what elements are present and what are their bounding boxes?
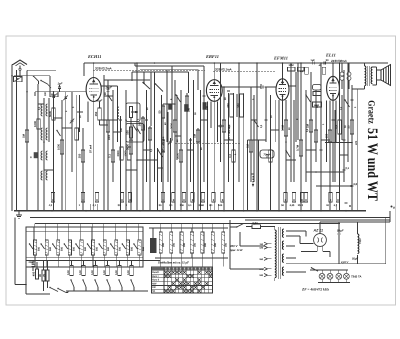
svg-text:2000: 2000 [108,134,111,140]
switch S8 [344,99,345,100]
svg-text:Kurz I: Kurz I [152,275,159,278]
osc coil L23 [107,260,109,265]
resistor R5 [75,128,79,140]
wire jog8 [104,79,150,81]
junction dots on bus [51,210,53,212]
filter coil L32 [181,228,183,232]
wire jog7 [316,185,352,187]
switch S4 [157,149,158,150]
band switch table [152,267,213,293]
switch S6 [253,119,254,120]
resistor R8c [127,147,131,160]
svg-text:500: 500 [96,246,99,251]
resistor R14 [161,140,165,152]
coil L2c [41,151,43,154]
svg-text:EFM11: EFM11 [273,56,288,61]
switch S10 [142,82,143,83]
speaker return wire [357,89,359,95]
resistor R30 [338,120,342,134]
osc switch S24 [118,279,119,280]
svg-text:150: 150 [325,133,328,138]
svg-text:300: 300 [227,103,230,108]
antenna coil L1 [14,77,23,82]
osc switch S22 [94,279,95,280]
svg-text:20µF: 20µF [28,261,35,264]
box 5000 el [313,102,322,107]
svg-text:1000: 1000 [124,150,127,156]
tube EL11 [327,76,340,100]
band coil L11 [45,227,47,240]
resistor 1000 osc [37,119,41,129]
node a [391,206,393,208]
osc coil L20 [71,260,73,265]
svg-text:AZ 11: AZ 11 [313,229,324,233]
svg-text:0,1: 0,1 [108,154,111,158]
wire bus verticals left [37,84,39,211]
svg-text:500: 500 [142,246,145,251]
coil L5 [118,107,120,110]
resistor R25 [298,67,305,71]
tube ECH11 [86,78,101,102]
row2 bottom wire [66,290,148,292]
resistor R26 [299,140,303,156]
electrolytic 50uF pair a [340,72,344,76]
svg-text:7345 TA: 7345 TA [351,275,361,279]
fuse F1 0,8A [252,225,261,229]
resistor 350a [81,150,85,162]
svg-text:300: 300 [193,242,196,247]
resistor R7 [106,120,110,132]
mains switch S30 [49,287,50,288]
capacitor C13 [261,86,263,89]
coil L2d [41,171,43,174]
capacitor C10 [189,138,192,140]
box grid stopper [313,92,321,96]
svg-text:Kurz II: Kurz II [152,279,159,282]
svg-text:70mA: 70mA [263,153,270,157]
svg-text:ZF = 468/472 kHz: ZF = 468/472 kHz [301,288,330,292]
wire riser EFM11 anode [282,63,284,79]
resistor R22 [269,150,273,162]
primary taps [264,242,268,245]
capacitor C11 [203,94,206,96]
switch S1b [40,80,41,81]
svg-text:3000: 3000 [117,150,120,156]
wire coupling EBF-EFM [222,86,261,88]
band coil L14 [79,227,81,240]
band coil L15 [91,227,93,240]
switch S32 [311,267,312,268]
svg-text:Spar. 12 W: Spar. 12 W [230,249,243,252]
svg-text:400: 400 [32,271,35,276]
band coil L10 [33,227,35,240]
heater wire 6,3V [300,263,355,265]
wire jog3 [137,159,158,161]
resistor dark box [34,152,38,158]
bank2 top wire [149,227,228,229]
table feed wires [160,258,162,267]
power transformer core [277,227,279,279]
band switch S17 [110,243,111,244]
extra verticals [143,72,145,83]
svg-text:500: 500 [72,246,75,251]
junction dots [11,75,13,77]
output transformer T2 [365,66,366,86]
resistor R19 [222,120,226,132]
resistor R40 [42,270,45,281]
switch S11 [155,83,156,84]
svg-text:50µF: 50µF [337,229,344,233]
capacitor C15 [320,148,323,150]
svg-text:25: 25 [43,274,46,277]
resistor R31 [350,120,354,134]
svg-text:a: a [393,206,395,210]
osc switch S23 [106,279,107,280]
svg-text:0,1: 0,1 [346,167,350,170]
svg-text:300: 300 [162,242,165,247]
svg-text:100: 100 [206,105,209,110]
band switch S19 [133,243,134,244]
svg-text:0,8A: 0,8A [253,222,259,225]
svg-text:10µF: 10µF [106,87,113,90]
mains tap return wires [229,227,231,269]
svg-text:51 W und WT: 51 W und WT [364,128,380,201]
switch S3 [132,124,133,125]
svg-text:500: 500 [49,246,52,251]
svg-text:350: 350 [78,153,81,158]
secondary tap wires [286,230,306,232]
svg-text:1000: 1000 [57,144,60,150]
svg-text:300: 300 [183,242,186,247]
tube EFM11 [276,79,289,100]
wire jog6 [306,171,344,173]
svg-text:97 mA: 97 mA [89,145,93,153]
speaker LS [377,70,382,80]
filter coil L31 [170,228,172,232]
band coil L17 [114,227,116,240]
row above bus: components [51,193,54,203]
heater line right [355,263,386,265]
wire bus verticals right [200,90,202,211]
bus 3 [35,223,340,225]
svg-text:MW: MW [152,282,157,285]
svg-text:0,1M: 0,1M [281,124,284,131]
band switch S16 [98,243,99,244]
capacitor 1uF top [312,62,314,65]
svg-text:Rundf.: Rundf. [152,271,159,274]
svg-text:100: 100 [126,130,129,135]
svg-text:350: 350 [95,111,98,116]
resistor 1000 [60,140,64,154]
filter choke 7310 [358,234,359,254]
svg-text:0,4: 0,4 [335,125,338,129]
svg-text:300: 300 [225,242,228,247]
wire jog4 [163,103,175,105]
svg-text:40µF: 40µF [96,100,103,103]
svg-text:500: 500 [38,246,41,251]
electrolytic 50uF pair b [347,72,351,76]
capacitor C18 [351,98,354,100]
resistor R28 [314,130,318,142]
resistor 5000 [52,108,56,120]
band switch S13 [64,243,65,244]
filter coil L33 [191,228,193,232]
svg-text:50µF: 50µF [352,258,358,261]
capacitor C7 [119,118,122,120]
resistor R18 [196,130,200,142]
osc switch S25 [130,279,131,280]
page frame [6,36,396,305]
svg-text:470: 470 [355,140,358,145]
wire jogs forest [38,103,44,105]
top supply wire [84,62,388,64]
svg-text:500: 500 [119,246,122,251]
band switch S15 [87,243,88,244]
wire top loop [135,65,204,67]
resistor R27 [309,120,313,132]
svg-text:500: 500 [61,246,64,251]
resistor R11 [141,118,145,130]
svg-text:6,8: 6,8 [354,183,358,186]
trimmer C9 [169,140,172,142]
resistor R15 [173,120,177,132]
resistor R21 [249,140,253,152]
svg-text:50: 50 [158,110,161,113]
svg-text:500: 500 [107,246,110,251]
ground G1 [18,211,20,215]
switch S5 [175,94,176,95]
wire input top [14,75,50,77]
bank1 feed stubs [33,224,35,232]
resistor R8 [111,150,115,162]
filter coil L36 [222,228,224,232]
tube EBF11 [206,80,222,102]
osc coil L24 [119,260,121,265]
svg-text:203V/3.2mA: 203V/3.2mA [94,67,112,71]
svg-text:300: 300 [204,242,207,247]
bandfilter can 2 [126,124,144,143]
power left vertical [229,220,231,227]
resistor R33 [322,67,326,74]
IF transformer T1 [230,94,234,117]
switch S2 [107,94,108,95]
resistor R23 [284,120,288,136]
resistor 350b [98,108,102,120]
power transformer primary [275,230,276,278]
coil L2b [41,128,43,131]
svg-text:0,02: 0,02 [67,270,70,275]
bandfilter can 1 [126,103,140,122]
svg-text:EL11: EL11 [325,53,336,58]
capacitor C16 [332,118,335,120]
switch S1a [33,76,34,77]
svg-text:30: 30 [39,274,42,277]
resistor R12 [148,128,152,140]
svg-text:1pF: 1pF [58,82,63,86]
capacitor C8 [145,118,148,120]
capacitor C12 [227,89,230,91]
svg-text:0,02: 0,02 [103,270,106,275]
chassis bus 2 [30,217,390,219]
capacitor 6,8 [351,184,354,186]
band switch S10 [29,243,30,244]
band switch S14 [75,243,76,244]
mains wire [245,219,390,221]
power transformer secondary [282,229,283,237]
rounded box 70mA [260,150,274,158]
svg-text:ECH11: ECH11 [87,54,101,59]
wire riser EBF11 anode [213,63,215,80]
switch S2b [56,130,57,131]
osc coil L21 [83,260,85,265]
switch S7 [305,94,306,95]
resistor 1M [25,130,29,142]
coil bank box [26,227,143,267]
capacitor 50 top [323,62,325,65]
svg-text:500: 500 [130,246,133,251]
resistor R17 [185,96,189,110]
svg-text:5000: 5000 [49,111,52,117]
resistor R24 10M [288,67,296,71]
capacitor 0,1uF [343,168,346,170]
resistor R32 [305,67,309,74]
svg-text:0,3: 0,3 [229,154,232,158]
resistor R20 [232,150,236,162]
trimmer C4 [64,96,67,98]
band coil L19 [137,227,139,240]
svg-text:TA: TA [152,290,155,293]
wire to grid [35,91,86,93]
svg-text:4,81 V: 4,81 V [341,261,349,264]
wire speaker down [385,83,387,86]
filter coil L30 [160,228,162,232]
wire jog1 [100,124,109,126]
svg-text:0,02: 0,02 [91,270,94,275]
svg-text:0,7M: 0,7M [296,144,299,151]
wire B+ top [320,221,390,223]
svg-text:7310: 7310 [359,238,362,244]
svg-text:Drehkolben mit ca. 15 pF: Drehkolben mit ca. 15 pF [157,261,189,265]
svg-text:1000: 1000 [34,121,37,127]
filter coil L34 [201,228,203,232]
resistor R41 [46,270,49,281]
band coil L18 [126,227,128,240]
wire riser EL11 anode [332,63,334,76]
resistor R10 [129,140,133,154]
row2 top wire [26,259,160,261]
heater pins [89,204,91,211]
resistor 400 [35,269,38,279]
svg-text:0,02: 0,02 [127,270,130,275]
svg-text:300: 300 [214,242,217,247]
wire mid right horizontal [325,142,352,144]
variable cap C20 [252,172,255,174]
svg-text:0,05: 0,05 [290,204,295,207]
svg-text:50: 50 [347,125,350,128]
bank2 bottom wire [155,257,228,259]
resistor R8b [120,147,124,160]
svg-text:5000: 5000 [199,204,205,207]
dashed ZF line [175,142,240,144]
wire left drop [14,218,16,285]
band coil L13 [68,227,70,240]
svg-text:Graetz: Graetz [366,100,376,124]
dial lamps [310,269,348,271]
resistor R29 [328,130,332,142]
lamp bottom wire [318,282,350,284]
svg-text:0,02: 0,02 [79,270,82,275]
band switch S18 [122,243,123,244]
svg-text:300: 300 [138,121,141,126]
svg-text:0,02: 0,02 [115,270,118,275]
svg-text:EBF11: EBF11 [205,54,219,59]
band coil L12 [56,227,58,240]
osc switch S21 [82,279,83,280]
capacitor C17 [343,138,346,140]
svg-text:1µF: 1µF [311,59,316,62]
chassis bus 1 [14,210,366,212]
wire jog5 [248,139,267,141]
wire riser ECH11 anode [93,63,95,78]
rounded box anode [313,85,322,91]
band switch S12 [52,243,53,244]
wire jog2 [100,119,118,121]
resistor R16 [179,150,183,162]
svg-text:500: 500 [84,246,87,251]
trimmer C5 [71,119,74,121]
svg-text:220 V: 220 V [229,244,238,248]
filter coil L35 [212,228,214,232]
osc switch S20 [70,279,71,280]
dark adjustment slug [150,238,157,253]
resistor R13 [161,106,165,118]
band switch S11 [40,243,41,244]
svg-text:300: 300 [173,242,176,247]
IF slug boxes [168,104,172,110]
mains switch S31 [230,226,237,228]
svg-text:300: 300 [188,107,191,112]
svg-text:203V/3.1mA: 203V/3.1mA [214,68,232,72]
band coil L16 [103,227,105,240]
osc coil L25 [131,260,133,265]
coil L2a [41,104,43,107]
switch S12 [285,150,286,151]
component near bus right [349,205,351,207]
antenna [13,60,27,65]
osc coil L22 [95,260,97,265]
wire antenna down [11,65,13,211]
capacitor C14 [265,118,268,120]
